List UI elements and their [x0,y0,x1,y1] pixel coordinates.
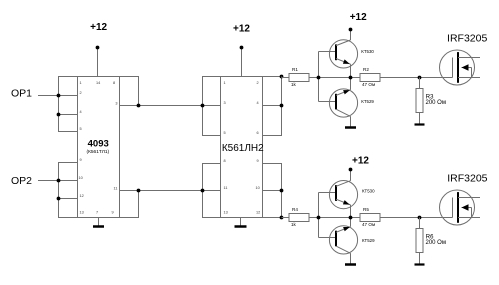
svg-text:1k: 1k [291,82,297,87]
svg-text:9: 9 [80,158,82,162]
svg-text:КТ529: КТ529 [361,99,374,104]
svg-text:12: 12 [80,194,84,198]
svg-text:8: 8 [224,159,226,163]
svg-text:11: 11 [114,186,118,190]
svg-text:КТ530: КТ530 [361,49,374,54]
svg-text:3: 3 [115,101,117,105]
svg-text:47 Ом: 47 Ом [362,222,375,227]
svg-text:+12: +12 [352,155,369,166]
svg-text:5: 5 [80,127,82,131]
svg-text:R4: R4 [292,207,298,212]
svg-text:2: 2 [257,81,259,85]
svg-text:4: 4 [257,101,259,105]
svg-text:(К561ТЛ1): (К561ТЛ1) [86,149,109,155]
svg-text:1k: 1k [291,222,297,227]
svg-text:4093: 4093 [88,139,109,150]
svg-text:47 Ом: 47 Ом [362,82,375,87]
svg-text:R5: R5 [363,207,369,212]
svg-text:+12: +12 [90,22,107,33]
svg-text:12: 12 [256,211,260,215]
svg-text:3: 3 [224,101,226,105]
svg-text:13: 13 [80,211,84,215]
svg-text:R1: R1 [292,67,298,72]
svg-text:6: 6 [257,131,259,135]
svg-text:8: 8 [113,81,115,85]
svg-text:200 Ом: 200 Ом [426,240,446,246]
svg-text:11: 11 [224,186,228,190]
svg-text:13: 13 [224,211,228,215]
svg-text:К561ЛН2: К561ЛН2 [222,143,264,154]
svg-text:7: 7 [96,211,98,215]
svg-text:OP1: OP1 [11,87,32,99]
svg-text:КТ529: КТ529 [362,238,375,243]
svg-text:14: 14 [96,81,100,85]
svg-text:10: 10 [79,176,83,180]
svg-text:КТ530: КТ530 [362,188,375,193]
svg-text:IRF3205: IRF3205 [447,172,487,184]
svg-text:+12: +12 [350,12,367,23]
svg-text:9: 9 [257,159,259,163]
svg-text:R2: R2 [363,67,369,72]
svg-text:2: 2 [80,91,82,95]
svg-text:OP2: OP2 [11,175,32,187]
svg-text:1: 1 [224,81,226,85]
svg-text:9: 9 [112,211,114,215]
svg-text:4: 4 [80,110,82,114]
svg-text:5: 5 [224,131,226,135]
svg-text:+12: +12 [233,24,250,35]
svg-text:IRF3205: IRF3205 [447,32,487,44]
svg-text:1: 1 [80,81,82,85]
svg-text:200 Ом: 200 Ом [426,100,446,106]
svg-text:10: 10 [256,186,260,190]
